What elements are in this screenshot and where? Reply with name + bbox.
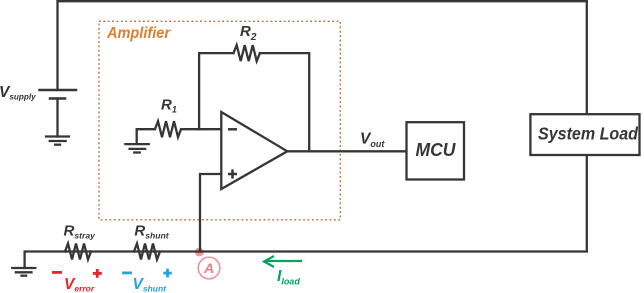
svg-text:A: A [203, 260, 214, 276]
svg-text:Amplifier: Amplifier [106, 25, 171, 42]
svg-text:MCU: MCU [416, 139, 457, 160]
svg-text:System Load: System Load [538, 124, 638, 144]
